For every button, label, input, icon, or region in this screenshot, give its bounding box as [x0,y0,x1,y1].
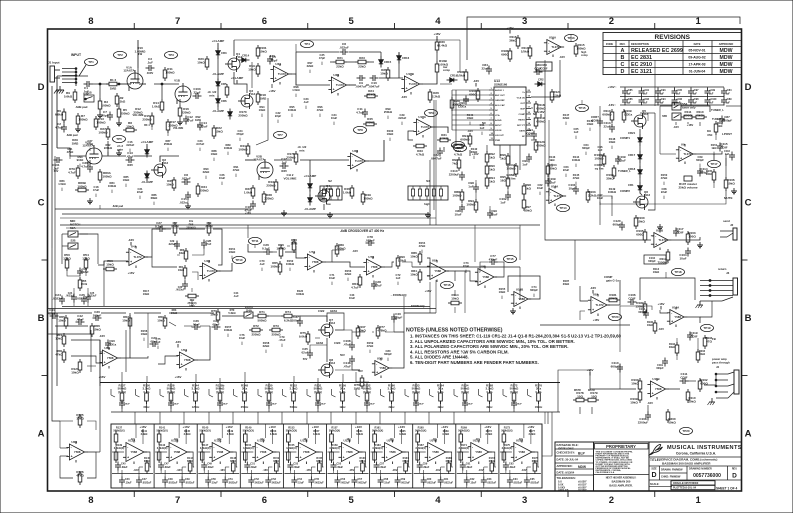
wire mid opamps [427,258,430,266]
svg-text:U5B: U5B [377,356,383,360]
svg-text:1. INSTANCES ON THIS SHEET: C1: 1. INSTANCES ON THIS SHEET: C1-119 CR1-2… [410,334,622,339]
svg-text:150Ω: 150Ω [688,234,696,238]
capacitor C113 [603,121,615,133]
svg-text:3.3kΩ: 3.3kΩ [184,433,191,436]
svg-text:1uF: 1uF [627,93,632,96]
svg-text:U10A: U10A [551,184,559,188]
eq cell power +16V 8 [441,425,448,433]
svg-text:100kΩ: 100kΩ [452,193,462,197]
svg-text:+: + [170,456,172,460]
svg-text:+16V: +16V [269,425,276,429]
svg-text:10uF: 10uF [454,212,461,216]
svg-text:.0022uF: .0022uF [52,296,63,300]
wire center vertical bus1 [429,160,431,225]
svg-text:D: D [621,69,625,75]
svg-text:+: + [181,363,183,367]
svg-text:+16V: +16V [312,425,319,429]
svg-text:-16V: -16V [352,249,358,253]
svg-text:10uF: 10uF [537,186,544,190]
svg-text:DATE: 9/13/04: DATE: 9/13/04 [557,471,575,475]
resistor R123 [534,139,546,153]
svg-text:1.5kΩ: 1.5kΩ [440,136,449,140]
eq cell power +16V 10 [527,425,534,433]
eq cell capacitor C47 [136,477,152,486]
capacitor C110b [449,169,465,181]
resistor R92 [485,151,495,165]
eq cell capacitor C61 [438,477,454,486]
eq cell wires 3 [198,451,210,453]
label C23 .047uF [196,139,205,151]
label R148 10kΩ [609,137,616,149]
svg-text:-16V: -16V [349,468,355,472]
ground tuner right [731,188,737,194]
eq cell opamp U13A [295,438,319,464]
svg-text:100kΩ: 100kΩ [98,130,108,134]
svg-text:1kΩ: 1kΩ [718,125,723,128]
eq cell capacitor C50 [205,477,218,486]
resistor R27 [98,126,109,140]
svg-text:R73: R73 [273,324,279,328]
svg-text:.39uF: .39uF [467,404,473,406]
label R92 1MΩ [195,115,202,127]
svg-text:50V: 50V [340,353,345,357]
svg-text:.47uF: .47uF [278,338,285,342]
wire midnotch box [62,233,68,235]
wire bandB rail1 [48,312,93,314]
eq cell bottom row divider 4 [241,473,282,475]
svg-text:-: - [592,298,593,302]
svg-text:+: + [376,370,378,374]
eq cell power -16V 7 [392,468,398,472]
eq cell capacitor C57 [374,462,387,471]
eq cell capacitor C57 [352,477,368,486]
eq cell divider 6 [326,424,328,488]
svg-text:910Ω: 910Ω [77,158,84,162]
svg-text:TL072: TL072 [133,255,142,259]
resistor R67 [122,315,132,329]
resistor R17 [166,119,183,133]
svg-text:Y588: Y588 [130,450,137,454]
svg-text:-16V: -16V [590,286,596,290]
capacitor C25 [76,293,87,305]
svg-text:12AX7A: 12AX7A [253,158,265,162]
switch S5A tuner only [672,102,696,110]
svg-text:10Ω: 10Ω [591,394,597,398]
op-amp U11A top [544,35,564,57]
label C61 1uF [480,123,485,135]
svg-text:2.2uF: 2.2uF [618,158,626,162]
svg-text:10kΩ: 10kΩ [259,49,267,53]
eq resistor R128 [160,383,179,413]
wire bandB q7q8 [326,338,328,362]
svg-text:220kΩ: 220kΩ [104,146,113,150]
svg-text:22uF: 22uF [603,124,610,128]
svg-text:.39uF: .39uF [509,466,516,469]
svg-text:MUTE: MUTE [724,196,733,200]
eq cell power -16V 8 [435,468,441,472]
svg-text:-16V: -16V [673,125,679,129]
svg-text:INPUT: INPUT [71,53,82,57]
eq resistor R148 [234,383,249,413]
svg-text:3.3kΩ(X): 3.3kΩ(X) [114,446,125,450]
svg-text:Y588: Y588 [475,450,482,454]
resistor R6 [55,109,66,123]
resistor R110 [693,110,707,119]
power -16V u13 [473,79,479,87]
svg-text:22pF: 22pF [193,90,200,94]
svg-text:10uF: 10uF [239,336,246,340]
label C44 [233,291,239,298]
wire mute feed [600,196,726,204]
svg-text:500kΩ(X): 500kΩ(X) [156,428,167,432]
svg-text:0.1kΩ: 0.1kΩ [171,224,178,228]
svg-text:PWR: PWR [495,140,501,142]
resistor R9 [64,89,77,103]
svg-text:NC: NC [533,112,537,116]
eq cell divider 9 [455,424,457,488]
svg-text:600pF: 600pF [613,222,622,226]
svg-text:3.3kΩ(X): 3.3kΩ(X) [502,446,513,450]
resistor R2 [115,93,126,107]
transistor Q4 [315,184,333,204]
eq cell bottom row divider 2 [155,473,196,475]
svg-text:+: + [368,270,370,274]
ground v2b [281,210,287,216]
svg-text:REV.: REV. [732,468,738,471]
resistor R189 [635,301,646,315]
ground v2b2 [327,212,333,218]
svg-text:MDW: MDW [578,465,586,469]
svg-text:Y588: Y588 [312,260,319,264]
svg-text:22kΩ: 22kΩ [263,344,270,348]
label C75 1uF [156,337,161,349]
label R147 22kΩ [563,113,570,125]
wire q1 q3 column [217,46,219,49]
label R86 68kΩ [151,193,158,205]
svg-text:1kΩ: 1kΩ [525,186,531,190]
svg-text:U14A: U14A [387,438,395,442]
svg-text:.39uF: .39uF [271,404,277,406]
svg-text:comp: comp [581,54,588,57]
op-amp U10B return [667,305,687,327]
label C43 [349,293,355,300]
svg-text:0.1uF: 0.1uF [262,246,270,250]
svg-text:AVG CAP: AVG CAP [495,104,505,107]
svg-text:1.0kΩ: 1.0kΩ [343,190,352,194]
resistor R176 [286,151,297,165]
svg-text:TP10: TP10 [235,258,243,262]
eq cell power +16V 7 [398,425,405,433]
svg-text:33kΩ: 33kΩ [179,252,185,255]
wire midnotch opamps [98,261,128,265]
svg-text:.0022uF: .0022uF [401,482,411,485]
eq cell capacitor C62 [464,477,477,486]
svg-text:1MΩ: 1MΩ [354,386,361,390]
resistor R3 [98,98,111,112]
svg-text:10kΩ: 10kΩ [631,381,639,385]
svg-text:10x: 10x [189,219,194,223]
diode CR3 [216,48,227,59]
svg-text:B: B [621,55,625,61]
svg-text:-16V: -16V [658,327,664,331]
op-amp U8A comp [588,292,610,316]
svg-text:10uF: 10uF [329,276,336,280]
resistor R62 [185,294,199,307]
input pin contacts [62,68,77,86]
eq resistor R144 [185,383,201,413]
svg-text:+CLAMP: +CLAMP [231,76,243,80]
resistor R8 [123,121,137,132]
wire u17a [434,127,448,133]
resistor R41 [238,143,249,157]
svg-text:PLOTTED:8-JUL-04: PLOTTED:8-JUL-04 [673,487,697,490]
svg-text:A: A [38,428,45,439]
svg-text:TP9: TP9 [428,111,434,115]
resistor R66 [90,323,101,337]
svg-text:+: + [592,308,594,312]
svg-text:TL072: TL072 [278,72,287,76]
svg-text:100kΩ: 100kΩ [102,174,112,178]
resistor R72 [249,324,263,337]
resistor R26 [428,89,441,103]
svg-text:U6A: U6A [104,346,111,350]
svg-text:1uF: 1uF [709,102,714,105]
svg-text:600Ω: 600Ω [469,92,477,96]
capacitor C101 [52,157,62,173]
resistor R25 [380,67,390,81]
svg-text:+16V: +16V [657,302,664,306]
eq cell power +16V 1 [139,425,146,433]
svg-text:5. ALL DIODES ARE 1N4448.: 5. ALL DIODES ARE 1N4448. [410,355,469,360]
power +CLAMP v2b [304,174,316,182]
capacitor C5 [267,55,278,65]
eq resistor R127 [111,383,130,413]
svg-text:100kΩ: 100kΩ [363,196,373,200]
capacitor C109c [545,177,556,187]
resistor R65b [270,261,281,275]
svg-text:3.3kΩ: 3.3kΩ [356,433,363,436]
svg-text:250kΩ: 250kΩ [120,111,130,115]
svg-text:TP14: TP14 [559,206,567,210]
eq cell resistor R173 [501,426,512,446]
svg-text:.0022uF: .0022uF [254,482,264,485]
svg-text:+16V: +16V [226,425,233,429]
test point TP13 [565,34,578,41]
capacitor C19 [244,201,256,216]
svg-text:TP15: TP15 [506,257,514,261]
svg-text:MDW: MDW [720,48,733,54]
svg-text:7: 7 [175,16,180,27]
label C35 47pF [319,53,326,65]
eq cell capacitor C56 [335,477,351,486]
label C39 .022uF [398,113,407,125]
svg-text:SHEET 1 OF 4: SHEET 1 OF 4 [716,487,737,491]
svg-text:+: + [130,260,132,264]
svg-text:.0022uF: .0022uF [530,482,540,485]
svg-text:GATE: GATE [519,130,525,133]
resistor R115 [574,43,588,57]
svg-text:-16V: -16V [559,55,565,59]
eq cell resistor R143 [157,443,168,463]
svg-text:.0015uF: .0015uF [176,289,185,292]
svg-text:22kΩ: 22kΩ [336,65,344,69]
switch S2B [68,239,78,250]
resistor R90b [396,255,407,269]
svg-text:CR6: CR6 [221,99,227,103]
resistor R107b [356,325,366,339]
svg-text:1uF: 1uF [726,93,731,96]
svg-text:REVISIONS: REVISIONS [655,34,691,41]
label R85 10kΩ [123,175,130,187]
svg-text:+CLAMP: +CLAMP [141,140,153,144]
test point TP15b [504,255,517,262]
svg-text:.39uF: .39uF [173,404,179,406]
ground preamp3 [97,112,103,118]
power rail +16V bank [608,85,724,89]
svg-text:600Ω: 600Ω [706,173,712,176]
ground v2 3 [185,203,191,209]
eq cell power -16V 3 [219,468,225,472]
capacitor C8 top [339,42,349,55]
switch block low [320,179,342,206]
svg-text:1uF: 1uF [726,102,731,105]
chassis ground J4 [708,398,716,405]
svg-text:1uF: 1uF [693,102,698,105]
svg-text:+: + [671,319,673,323]
switch S5B [662,113,681,120]
eq cell capacitor C64 [507,477,523,486]
label C79 .47uF [278,335,285,347]
svg-text:1uF: 1uF [500,200,506,204]
label power amp pass through [712,357,730,369]
power +CLAMP v2 [141,140,153,148]
eq cell capacitor C59 [417,462,430,471]
svg-text:500kΩ(X): 500kΩ(X) [113,428,124,432]
resistor R13 [94,116,106,130]
svg-text:Y588: Y588 [107,356,114,360]
svg-text:COIF: COIF [526,131,533,135]
svg-text:U12C: U12C [214,438,222,442]
svg-text:10kΩ: 10kΩ [106,262,114,266]
svg-text:3.3kΩ(X): 3.3kΩ(X) [415,446,426,450]
svg-text:12AX7A: 12AX7A [123,69,135,73]
eq cell resistor R157 [313,430,320,436]
svg-text:100kΩ: 100kΩ [101,103,111,107]
label R156 10kΩ [141,329,148,341]
svg-text:+: + [127,456,129,460]
capacitor C25b [85,292,97,303]
transistor Q7 [318,318,336,338]
transistor Q1 [225,52,243,72]
eq cell bottom row divider 6 [328,473,369,475]
svg-text:-: - [472,445,473,449]
svg-text:10kΩ: 10kΩ [410,254,418,258]
svg-text:5.6kΩ: 5.6kΩ [228,311,235,315]
svg-text:+16V: +16V [506,26,513,30]
label MID NOTCH [70,219,80,230]
power +16V below [470,150,479,156]
svg-text:6: 6 [262,495,267,506]
eq cell resistor R155 [286,443,297,463]
resistor R49 [361,191,373,205]
resistor R102c [546,163,557,177]
connector J4 power amp [715,370,739,398]
svg-text:DESCRIPTION: DESCRIPTION [631,42,649,46]
svg-text:-: - [431,264,432,268]
svg-text:MDW: MDW [720,55,733,61]
capacitor C23 [77,268,89,277]
svg-text:47kΩ: 47kΩ [76,473,84,477]
wire preamp to crossover bus [60,224,540,226]
label C67 10uF [597,193,604,205]
svg-text:10kΩ: 10kΩ [727,181,735,185]
svg-text:2200uF: 2200uF [449,172,460,176]
label GES2 GES1 [318,309,338,313]
svg-text:-: - [429,445,430,449]
svg-text:U8A: U8A [432,258,439,262]
Fender logo and company name [650,444,742,455]
svg-text:68kΩ: 68kΩ [151,196,158,200]
svg-text:TP4: TP4 [304,42,310,46]
power +16V u11a [506,26,513,34]
resistor R10B [435,59,450,75]
svg-text:TP2: TP2 [117,53,123,57]
eq cell capacitor C51 [244,462,257,471]
svg-text:J3: J3 [726,271,730,275]
wire u3 row [291,74,330,85]
label R154 47kΩ [419,241,426,253]
resistor R179 [585,389,599,402]
svg-text:7: 7 [175,495,180,506]
label R142 30kΩ [471,147,478,159]
svg-text:1kΩ: 1kΩ [697,113,703,117]
svg-text:690Ω: 690Ω [501,52,509,56]
resistor R74 [281,310,295,323]
wire v2b bus [245,159,256,161]
capacitor C7 [101,110,113,121]
resistor R104c [606,165,616,180]
eq cell resistor R167 [415,443,426,463]
svg-text:1.5kΩ: 1.5kΩ [292,88,300,92]
resistor R21 [333,56,347,69]
svg-text:U13A: U13A [300,438,308,442]
svg-text:30kΩ: 30kΩ [471,150,478,154]
svg-text:RATIO: RATIO [518,119,525,122]
svg-text:-16V: -16V [128,238,134,242]
capacitor C24b [66,292,77,303]
eq cell resistor R169 [458,426,469,446]
svg-text:47kΩ: 47kΩ [55,352,63,356]
svg-text:-: - [309,256,310,260]
svg-text:250kΩ: 250kΩ [286,155,296,159]
capacitor C1 [83,81,93,96]
svg-text:U12D: U12D [257,438,264,442]
svg-text:+: + [429,456,431,460]
diode CR8 [145,147,149,158]
resistor R31 [437,133,451,142]
eq cell power +16V 4 [269,425,276,433]
svg-text:500kΩ: 500kΩ [257,319,267,323]
resistor R76 [354,375,364,390]
label R82 220kΩ [104,143,113,155]
svg-text:CR14: CR14 [242,54,250,58]
eq cell resistor R168 [446,457,453,474]
svg-text:J113: J113 [329,321,336,325]
wire bandB u6a [56,313,58,320]
label C71 10uF [329,273,336,285]
svg-text:1kHz: 1kHz [339,405,346,409]
capacitor C106 [628,293,637,305]
